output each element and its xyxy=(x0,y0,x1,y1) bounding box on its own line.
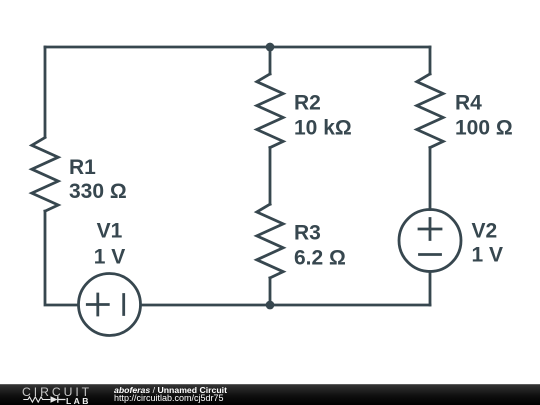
svg-text:6.2 Ω: 6.2 Ω xyxy=(294,246,346,269)
wire top xyxy=(45,46,430,49)
wire middle lower xyxy=(269,278,272,305)
svg-text:R1: R1 xyxy=(69,156,96,179)
svg-text:100 Ω: 100 Ω xyxy=(455,117,513,140)
resistor R4 xyxy=(417,74,443,148)
logo resistor zigzag xyxy=(23,397,50,402)
wire middle mid xyxy=(269,148,272,205)
svg-text:10 kΩ: 10 kΩ xyxy=(294,117,352,140)
wire bottom xyxy=(142,304,430,307)
svg-text:330 Ω: 330 Ω xyxy=(69,180,127,203)
wire right lower xyxy=(429,272,432,306)
logo diode xyxy=(51,396,58,403)
svg-text:1 V: 1 V xyxy=(472,243,504,266)
voltage source V2 xyxy=(399,210,461,272)
svg-text:R2: R2 xyxy=(294,91,321,114)
svg-text:R4: R4 xyxy=(455,91,482,114)
svg-text:http://circuitlab.com/cj5dr75: http://circuitlab.com/cj5dr75 xyxy=(114,393,224,403)
wire middle upper xyxy=(269,47,272,74)
footer bar xyxy=(0,384,540,405)
resistor R3 xyxy=(257,204,283,278)
svg-text:V1: V1 xyxy=(97,219,123,242)
wire right upper xyxy=(429,47,432,74)
node junction top xyxy=(266,43,275,52)
svg-text:LAB: LAB xyxy=(66,396,91,405)
wire left upper xyxy=(44,47,47,137)
wire left lower xyxy=(45,211,77,305)
node junction bottom xyxy=(266,301,275,310)
svg-text:1 V: 1 V xyxy=(94,245,126,268)
svg-text:V2: V2 xyxy=(472,219,498,242)
resistor R2 xyxy=(257,74,283,148)
resistor R1 xyxy=(32,138,58,212)
wire right mid xyxy=(429,148,432,210)
voltage source V1 xyxy=(79,274,141,336)
svg-text:R3: R3 xyxy=(294,221,321,244)
